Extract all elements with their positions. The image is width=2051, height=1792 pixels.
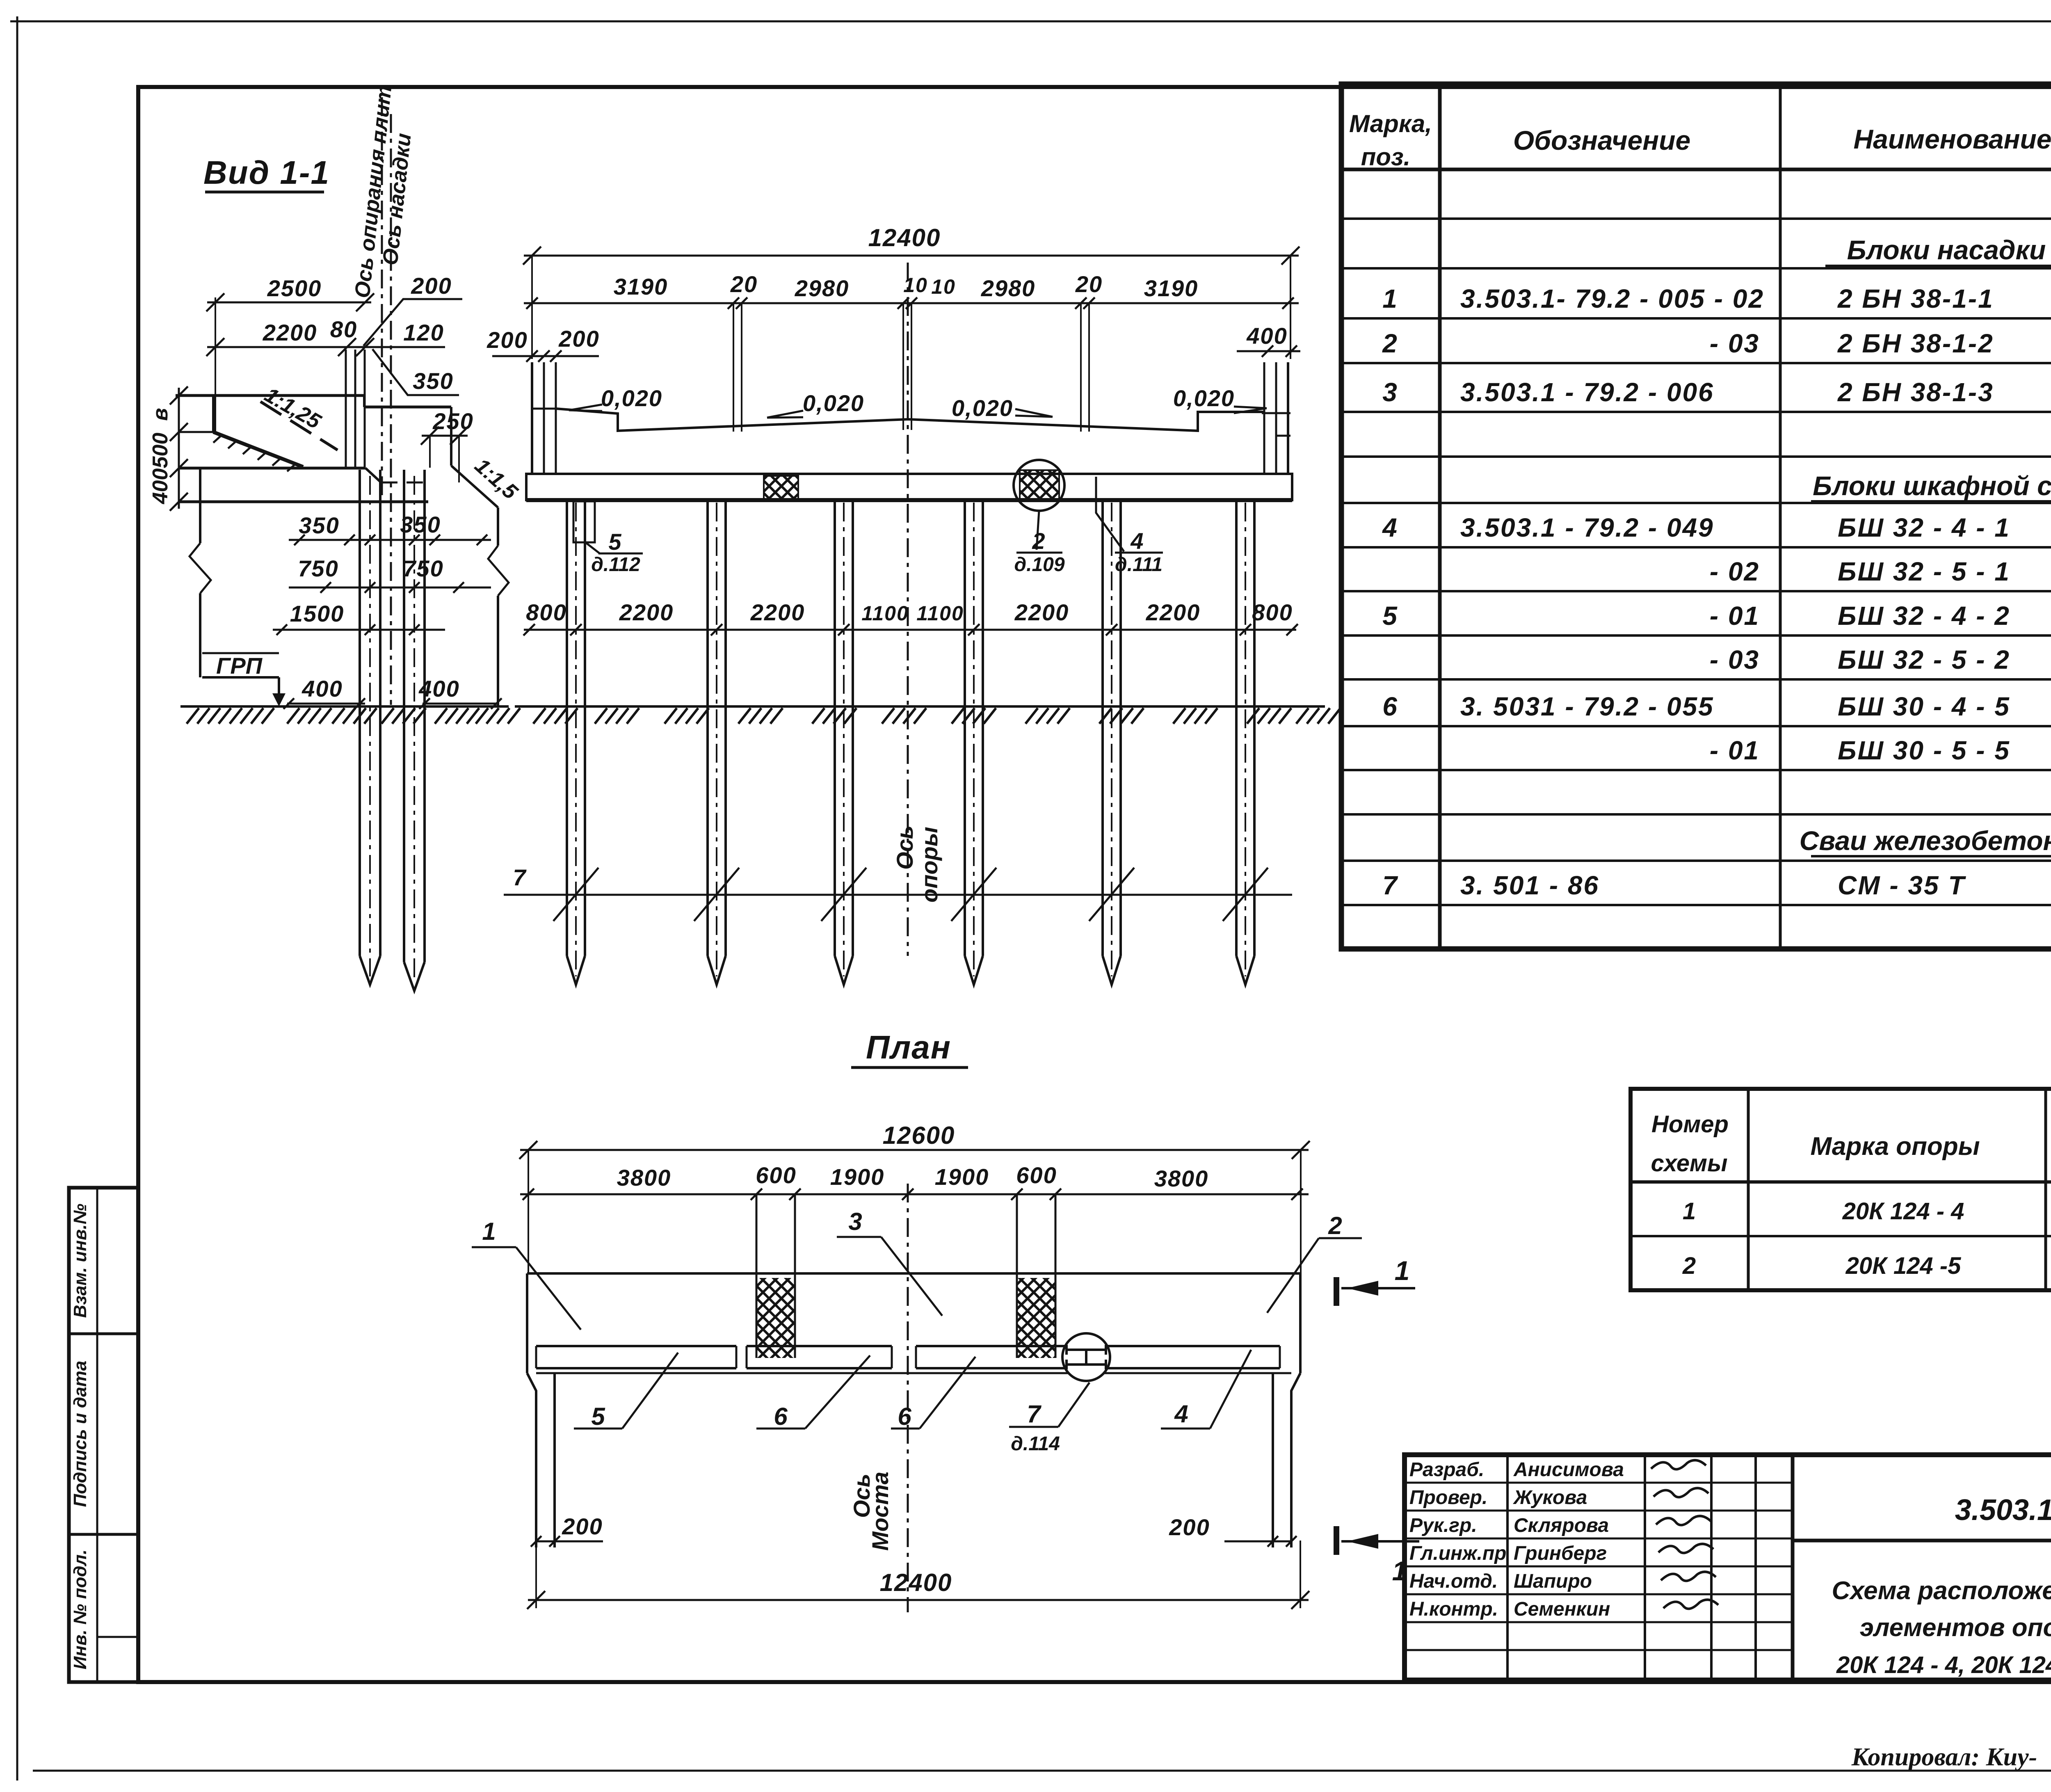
svg-text:БШ 32 - 5 - 1: БШ 32 - 5 - 1 (1838, 557, 2010, 586)
svg-text:4: 4 (1130, 528, 1143, 554)
svg-text:2200: 2200 (750, 599, 805, 625)
svg-text:3800: 3800 (617, 1165, 671, 1191)
dim 250 (422, 435, 468, 437)
plan band bottom edge (536, 1372, 1291, 1374)
left wall columns (531, 362, 533, 474)
svg-text:750: 750 (403, 555, 443, 581)
svg-text:- 03: - 03 (1710, 645, 1760, 674)
left lower edge with break (199, 468, 201, 543)
dim 400 right (1237, 350, 1300, 352)
svg-text:120: 120 (403, 320, 444, 345)
svg-text:5: 5 (1382, 601, 1398, 631)
pile spacing dims (524, 629, 1296, 631)
right wall columns (1263, 362, 1265, 474)
right lower edge with break (497, 507, 499, 546)
svg-text:ГРП: ГРП (216, 653, 263, 679)
battered face hatch ticks (213, 435, 222, 443)
svg-text:1900: 1900 (935, 1164, 989, 1190)
svg-text:400: 400 (301, 676, 343, 702)
svg-text:Наименование: Наименование (1854, 124, 2051, 154)
svg-text:Жукова: Жукова (1512, 1487, 1587, 1509)
pile cap bottom lines (179, 467, 365, 470)
svg-text:80: 80 (330, 316, 357, 342)
table header bottom line (1341, 168, 2051, 171)
svg-text:Гринберг: Гринберг (1514, 1543, 1607, 1564)
svg-text:1100: 1100 (861, 602, 909, 625)
dim 12400 (524, 255, 1299, 257)
svg-text:Блоки насадки: Блоки насадки (1847, 235, 2046, 265)
label 2 d109 (1037, 511, 1039, 550)
top surface profile (556, 409, 1264, 431)
svg-text:0,020: 0,020 (803, 390, 864, 416)
svg-text:СМ - 35 Т: СМ - 35 Т (1838, 871, 1966, 900)
svg-text:7: 7 (513, 864, 527, 890)
sheet thin border top (10, 21, 2051, 23)
label 5 d112 (585, 542, 600, 553)
slope mark 2 (767, 411, 803, 418)
battered face dashed 1:1.25 (260, 402, 338, 450)
svg-text:3.503.1- 79.2 - 005 - 02: 3.503.1- 79.2 - 005 - 02 (1460, 284, 1764, 313)
dim 400 right (423, 703, 498, 705)
svg-text:400: 400 (418, 676, 459, 702)
pile 6 elevation (1235, 500, 1238, 956)
svg-text:д.109: д.109 (1014, 554, 1064, 576)
svg-text:схемы: схемы (1651, 1150, 1728, 1177)
sheet thin border bottom (33, 1770, 2051, 1772)
svg-text:200: 200 (411, 273, 452, 299)
left vertical dim line (178, 388, 180, 509)
dim 750 750 (289, 587, 491, 589)
svg-text:опоры: опоры (916, 827, 942, 903)
svg-text:в: в (148, 408, 172, 421)
svg-text:Ось: Ось (892, 825, 918, 870)
svg-text:д.114: д.114 (1011, 1433, 1060, 1455)
svg-text:- 02: - 02 (1710, 557, 1760, 586)
dim 2200 80 (207, 346, 371, 348)
sheet thin border left (16, 16, 18, 1781)
svg-text:3. 5031 - 79.2 - 055: 3. 5031 - 79.2 - 055 (1460, 692, 1714, 721)
svg-text:3. 501 - 86: 3. 501 - 86 (1460, 871, 1599, 900)
svg-text:20К 124 - 4: 20К 124 - 4 (1842, 1198, 1964, 1225)
svg-text:2980: 2980 (795, 275, 850, 301)
svg-text:БШ 30 - 5 - 5: БШ 30 - 5 - 5 (1838, 736, 2010, 765)
svg-text:Моста: Моста (867, 1472, 893, 1551)
svg-text:1: 1 (1392, 1556, 1407, 1586)
shkaf wall band in plan (536, 1345, 736, 1347)
svg-text:2200: 2200 (1014, 599, 1069, 625)
svg-text:600: 600 (756, 1162, 796, 1188)
svg-text:Марка опоры: Марка опоры (1810, 1132, 1980, 1161)
dim 200 200 left (492, 355, 599, 357)
pile A vid (359, 470, 361, 956)
svg-text:250: 250 (432, 408, 473, 434)
svg-text:2 БН 38-1-1: 2 БН 38-1-1 (1837, 284, 1994, 313)
svg-text:2200: 2200 (263, 320, 317, 345)
axis os nasadki (390, 114, 392, 705)
pile cap elevation (526, 474, 1292, 500)
svg-text:БШ 32 - 4 - 1: БШ 32 - 4 - 1 (1838, 513, 2010, 542)
shkaf wall hidden verticals (345, 350, 347, 468)
joint extension lines (733, 303, 734, 432)
svg-text:БШ 32 - 5 - 2: БШ 32 - 5 - 2 (1838, 645, 2010, 674)
svg-text:Обозначение: Обозначение (1513, 125, 1690, 155)
svg-text:1: 1 (1382, 284, 1397, 313)
joint hatch 1 (764, 476, 798, 500)
svg-text:2 БН 38-1-2: 2 БН 38-1-2 (1837, 329, 1994, 358)
svg-text:1: 1 (1683, 1198, 1696, 1225)
dim 120 (371, 346, 445, 348)
svg-text:3.503.1 - 79.2 - 006: 3.503.1 - 79.2 - 006 (1460, 377, 1714, 407)
svg-text:5: 5 (591, 1403, 605, 1430)
svg-text:20: 20 (730, 271, 758, 297)
svg-text:2200: 2200 (619, 599, 674, 625)
GRP step (202, 676, 279, 679)
plan outline (527, 1272, 1300, 1275)
svg-text:12400: 12400 (868, 224, 941, 251)
svg-text:12400: 12400 (880, 1569, 952, 1596)
pile 5 elevation (1101, 500, 1104, 956)
svg-text:Марка,: Марка, (1349, 110, 1432, 137)
svg-text:200: 200 (486, 327, 528, 353)
svg-text:2200: 2200 (1146, 599, 1201, 625)
svg-text:350: 350 (400, 512, 441, 537)
svg-text:350: 350 (413, 368, 453, 394)
nasadka right edge (450, 407, 452, 466)
svg-text:БШ 32 - 4 - 2: БШ 32 - 4 - 2 (1838, 601, 2010, 631)
svg-text:- 01: - 01 (1710, 736, 1760, 765)
svg-text:2: 2 (1682, 1253, 1696, 1279)
dim 400 left (287, 703, 365, 705)
dim 12400 plan (528, 1599, 1309, 1601)
svg-text:Склярова: Склярова (1514, 1515, 1609, 1536)
svg-text:600: 600 (1016, 1162, 1057, 1188)
schema table outline (1631, 1089, 2051, 1290)
svg-text:6: 6 (898, 1403, 911, 1430)
svg-text:2 БН 38-1-3: 2 БН 38-1-3 (1837, 377, 1994, 407)
svg-text:0,020: 0,020 (1173, 385, 1235, 411)
leader 350 top (372, 349, 459, 395)
svg-text:Подпись и дата: Подпись и дата (70, 1361, 90, 1507)
dim row 3800 600 1900 1900 600 3800 (520, 1193, 1309, 1195)
ground line vid (180, 705, 509, 708)
svg-text:4: 4 (1174, 1400, 1188, 1428)
svg-text:Инв. № подл.: Инв. № подл. (70, 1550, 90, 1669)
svg-text:1: 1 (1395, 1255, 1410, 1286)
svg-text:Вид 1-1: Вид 1-1 (203, 154, 330, 191)
svg-text:7: 7 (1027, 1400, 1041, 1428)
battered face solid (213, 432, 303, 467)
label 4 d111 (1096, 477, 1124, 551)
section mark 1 upper (1334, 1277, 1339, 1306)
svg-text:20К 124 - 4, 20К 124 - 5: 20К 124 - 4, 20К 124 - 5 (1836, 1652, 2051, 1678)
svg-text:Номер: Номер (1651, 1111, 1729, 1138)
svg-text:БШ 30 - 4 - 5: БШ 30 - 4 - 5 (1838, 692, 2010, 721)
pile 2 elevation (706, 500, 709, 956)
svg-text:4: 4 (1382, 513, 1397, 542)
title block signature grid (1506, 1455, 1509, 1680)
svg-text:Разраб.: Разраб. (1409, 1459, 1484, 1481)
svg-text:План: План (866, 1029, 951, 1065)
wing wall left (527, 1373, 536, 1547)
svg-text:3.503.1 - 79.1 - 049: 3.503.1 - 79.1 - 049 (1955, 1494, 2051, 1527)
detail circle d114 (1062, 1333, 1110, 1381)
dim row 3190 20 2980 10 10 2980 20 3190 (524, 302, 1299, 304)
shkaf strip left (756, 1194, 758, 1358)
svg-text:Провер.: Провер. (1409, 1487, 1487, 1509)
svg-text:200: 200 (558, 326, 599, 352)
svg-text:- 03: - 03 (1710, 329, 1760, 358)
svg-text:0,020: 0,020 (601, 385, 662, 411)
svg-text:1100: 1100 (916, 602, 964, 625)
axis os opiraniya plit (381, 97, 383, 502)
svg-text:поз.: поз. (1361, 143, 1411, 171)
svg-text:750: 750 (298, 555, 338, 581)
svg-text:7: 7 (1382, 871, 1398, 900)
svg-text:Шапиро: Шапиро (1514, 1570, 1592, 1592)
dim 350 350 mid (289, 539, 491, 541)
svg-text:200: 200 (562, 1513, 603, 1539)
nasadka ledge (363, 395, 365, 407)
nasadka top (176, 394, 364, 397)
title block outline (1405, 1455, 2051, 1680)
svg-text:Анисимова: Анисимова (1513, 1459, 1624, 1481)
axis os mosta (907, 1184, 909, 1612)
table row lines (1341, 217, 2051, 220)
svg-text:3: 3 (1382, 377, 1397, 407)
dim 200 plan left (536, 1541, 603, 1543)
svg-text:200: 200 (1169, 1514, 1210, 1540)
svg-text:Схема расположения: Схема расположения (1832, 1577, 2051, 1605)
svg-text:400: 400 (1246, 323, 1287, 349)
svg-text:400: 400 (148, 469, 172, 505)
leader 200 (363, 299, 462, 346)
pile B vid (403, 470, 405, 962)
elevation ground line (515, 705, 1325, 708)
svg-text:500: 500 (148, 433, 172, 469)
left face vertical (212, 395, 215, 432)
svg-text:800: 800 (526, 599, 566, 625)
svg-text:- 01: - 01 (1710, 601, 1760, 631)
svg-text:2980: 2980 (981, 275, 1036, 301)
svg-text:Рук.гр.: Рук.гр. (1409, 1515, 1477, 1536)
svg-text:6: 6 (1382, 692, 1397, 721)
svg-text:Н.контр.: Н.контр. (1409, 1598, 1498, 1620)
pile 3 elevation (834, 500, 836, 956)
svg-text:д.111: д.111 (1115, 554, 1163, 576)
left sidebar stamp (69, 1188, 138, 1682)
section mark 1 lower (1334, 1526, 1339, 1555)
svg-text:3190: 3190 (614, 274, 668, 299)
svg-text:20: 20 (1075, 271, 1103, 297)
dim 1500 (273, 629, 445, 631)
dim 2500 (207, 302, 371, 304)
svg-text:2500: 2500 (267, 275, 322, 301)
svg-text:12600: 12600 (883, 1122, 955, 1149)
svg-text:Копировал: Киу-: Копировал: Киу- (1851, 1743, 2037, 1771)
svg-text:6: 6 (774, 1403, 788, 1430)
wing wall right (1291, 1373, 1300, 1547)
specification table outline (1341, 84, 2051, 949)
svg-text:Взам. инв.№: Взам. инв.№ (70, 1204, 90, 1318)
slope mark 1 (569, 405, 602, 411)
svg-text:д.112: д.112 (591, 554, 640, 576)
svg-text:2: 2 (1032, 528, 1045, 554)
svg-text:1: 1 (482, 1218, 496, 1245)
svg-text:10: 10 (931, 275, 956, 298)
svg-text:3: 3 (848, 1208, 862, 1235)
svg-text:20К 124 -5: 20К 124 -5 (1845, 1253, 1961, 1279)
svg-text:2: 2 (1328, 1212, 1342, 1239)
svg-text:элементов опор: элементов опор (1860, 1614, 2051, 1642)
svg-text:800: 800 (1252, 599, 1293, 625)
svg-text:Гл.инж.пр: Гл.инж.пр (1409, 1543, 1506, 1564)
svg-text:3.503.1 - 79.2 - 049: 3.503.1 - 79.2 - 049 (1460, 513, 1714, 542)
svg-text:Блоки шкафной стенки: Блоки шкафной стенки (1813, 471, 2051, 501)
svg-text:3190: 3190 (1144, 275, 1199, 301)
svg-text:3800: 3800 (1154, 1166, 1209, 1191)
slope 1:1.5 face (451, 466, 498, 507)
shkaf strip right (1016, 1194, 1018, 1358)
svg-text:350: 350 (299, 512, 339, 538)
pile 4 elevation (964, 500, 966, 956)
svg-text:1900: 1900 (830, 1164, 885, 1190)
table column lines (1438, 84, 1442, 949)
svg-text:Семенкин: Семенкин (1514, 1598, 1610, 1620)
pile 1 elevation (566, 500, 568, 956)
block 5 detail on pile 1 (573, 501, 595, 542)
dim 200 plan right (1224, 1541, 1291, 1543)
svg-text:2: 2 (1382, 329, 1397, 358)
svg-text:Нач.отд.: Нач.отд. (1409, 1570, 1498, 1592)
svg-text:5: 5 (608, 529, 621, 555)
joint hatch 2 circled (1020, 470, 1059, 501)
svg-text:1500: 1500 (290, 601, 345, 626)
dim 12600 (520, 1149, 1309, 1151)
axis os opory (907, 263, 909, 956)
svg-text:0,020: 0,020 (952, 395, 1013, 421)
svg-text:Сваи железобетонные: Сваи железобетонные (1800, 825, 2051, 856)
